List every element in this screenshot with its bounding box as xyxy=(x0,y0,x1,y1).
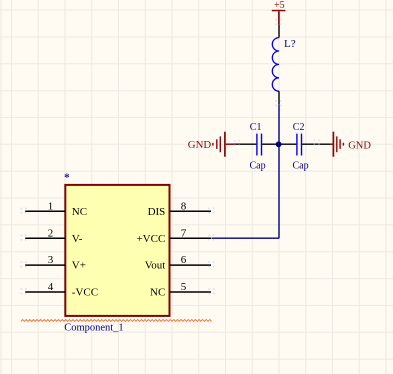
pin 5 NC wire xyxy=(170,291,211,293)
svg-text:*: * xyxy=(64,172,70,184)
svg-text:-VCC: -VCC xyxy=(72,287,98,299)
pin 8 DIS wire xyxy=(170,210,211,212)
svg-text:+5: +5 xyxy=(274,0,285,11)
svg-text:GND: GND xyxy=(348,141,371,152)
inductor L? pin 1 (top stub) xyxy=(278,25,280,38)
svg-text:1: 1 xyxy=(48,200,54,212)
pin 6 Vout wire xyxy=(170,264,211,266)
ground GND right xyxy=(330,132,371,157)
svg-text:NC: NC xyxy=(72,206,87,218)
power port +5 xyxy=(272,0,286,25)
capacitor C2 pin 2 xyxy=(302,143,330,145)
svg-text:2: 2 xyxy=(48,227,54,239)
svg-text:6: 6 xyxy=(181,254,187,266)
pin 7 +VCC wire xyxy=(170,237,211,239)
svg-text:DIS: DIS xyxy=(148,206,166,218)
inductor L? coil xyxy=(272,38,279,92)
svg-text:5: 5 xyxy=(181,281,187,293)
pin 2 V- wire xyxy=(25,237,65,239)
capacitor C1 pin 2 xyxy=(262,143,279,145)
svg-text:3: 3 xyxy=(48,254,54,266)
capacitor C1 pin 1 xyxy=(234,143,257,145)
ground GND left xyxy=(188,132,234,157)
svg-text:C2: C2 xyxy=(293,122,305,133)
pin 3 V+ wire xyxy=(25,264,65,266)
wire: horizontal to U pin 7 xyxy=(212,237,280,239)
svg-text:NC: NC xyxy=(150,287,165,299)
capacitor C2 pin 1 xyxy=(279,143,296,145)
svg-text:Vout: Vout xyxy=(145,260,166,272)
pin 1 NC wire xyxy=(25,210,65,212)
wire: vertical from inductor to pin7 row xyxy=(278,104,280,238)
svg-text:Cap: Cap xyxy=(293,160,309,171)
junction dot at cap rail xyxy=(276,141,282,147)
svg-text:8: 8 xyxy=(181,200,187,212)
svg-text:L?: L? xyxy=(284,38,296,50)
connection grid markers (faint crosses at pin hot ends) xyxy=(21,19,320,294)
inductor L? pin 2 (bottom stub) xyxy=(278,91,280,104)
svg-text:+VCC: +VCC xyxy=(136,233,165,245)
component Component_1 body xyxy=(65,185,169,316)
svg-text:V+: V+ xyxy=(72,260,86,272)
svg-text:Component_1: Component_1 xyxy=(64,322,124,333)
svg-text:7: 7 xyxy=(181,227,187,239)
svg-text:4: 4 xyxy=(48,281,54,293)
svg-text:Cap: Cap xyxy=(250,160,266,171)
capacitor C2 plates xyxy=(297,134,302,156)
svg-text:V-: V- xyxy=(72,233,83,245)
capacitor C1 plates xyxy=(257,134,262,156)
error wavy underline xyxy=(21,320,212,322)
svg-text:GND: GND xyxy=(188,139,212,151)
pin 4 -VCC wire xyxy=(25,291,65,293)
svg-text:C1: C1 xyxy=(250,122,262,133)
